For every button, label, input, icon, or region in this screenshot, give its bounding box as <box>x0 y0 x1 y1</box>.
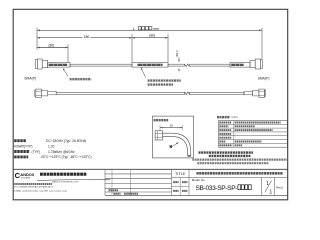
break mark upper cable <box>184 64 189 67</box>
SMA plug right (upper view) <box>250 60 255 67</box>
approval cells <box>171 186 189 188</box>
svg-text:-40°C~+125°C (Typ. -65°C~+125°: -40°C~+125°C (Typ. -65°C~+125°C) <box>40 155 92 159</box>
heat shrink band 1 with print <box>48 63 70 68</box>
svg-text:30: 30 <box>170 123 174 127</box>
svg-text:VSWR(TYP): VSWR(TYP) <box>14 144 33 148</box>
title text <box>197 172 284 175</box>
note4 <box>197 162 268 164</box>
svg-text:SB-033-SP-SP-: SB-033-SP-SP- <box>196 185 238 192</box>
note2 <box>209 155 251 157</box>
cable lower segment 2 <box>190 92 244 94</box>
SMA plug left (upper view) <box>35 60 37 69</box>
row7 value <box>235 144 243 146</box>
row4 label <box>219 133 231 135</box>
row3 label <box>219 129 231 131</box>
svg-text:(mm): (mm) <box>232 115 238 119</box>
heat shrink band 2 with print <box>132 63 168 68</box>
svg-text:TITLE: TITLE <box>175 172 186 176</box>
svg-text:DC~18GHz (Typ. 26.5GHz): DC~18GHz (Typ. 26.5GHz) <box>46 139 86 143</box>
callout1 text <box>70 78 92 80</box>
bend cable curve <box>163 133 191 156</box>
svg-text:Rev1: Rev1 <box>276 185 283 189</box>
appr4 <box>182 190 187 192</box>
svg-text:TEL (029)856-0909 FAX (029)8: TEL (029)856-0909 FAX (029)856-0907 <box>14 186 53 189</box>
row2 label <box>219 125 228 127</box>
svg-text:Model No.: Model No. <box>192 178 206 182</box>
row2 value <box>235 125 255 127</box>
heat shrink band 3 with print <box>230 63 250 68</box>
svg-text:1.78dB/m @6GHz: 1.78dB/m @6GHz <box>48 150 75 154</box>
svg-text:SMA(P): SMA(P) <box>258 76 270 80</box>
svg-text:1: 1 <box>269 190 272 196</box>
rev hdr2 <box>114 193 121 195</box>
SMA plug right (lower view) <box>244 91 253 94</box>
rev hdr1 <box>109 189 119 191</box>
appr1 <box>173 181 178 183</box>
row7 label <box>219 144 232 146</box>
cable structure header <box>217 116 230 118</box>
rev hdr3 <box>124 193 138 195</box>
callout2 line1 <box>148 79 181 81</box>
row1 label <box>219 122 231 124</box>
appr3 <box>173 190 178 192</box>
note1 <box>199 151 254 153</box>
row6 label <box>219 141 226 143</box>
row3 value <box>235 129 273 131</box>
sheet cell 1/1 <box>260 178 262 196</box>
svg-text:Ø3.6: Ø3.6 <box>175 50 179 57</box>
svg-text:SYSTEMS: SYSTEMS <box>21 178 31 180</box>
parts table <box>219 121 288 148</box>
cable segment upper 3 <box>189 64 230 66</box>
extension line x37 <box>36 28 38 50</box>
dimension (30) left band <box>37 47 68 49</box>
extension line x168 <box>167 34 169 62</box>
svg-text:(30): (30) <box>149 34 155 38</box>
extension line x68 <box>67 44 69 62</box>
svg-text:mm: mm <box>153 27 159 31</box>
revision table <box>104 169 106 195</box>
dimension L overall <box>37 29 262 31</box>
svg-text:1.20: 1.20 <box>48 144 55 148</box>
svg-text:SMA(P): SMA(P) <box>24 76 36 80</box>
address1 <box>14 183 52 185</box>
bend box title <box>154 119 169 121</box>
svg-text:(30): (30) <box>48 43 54 47</box>
row1 value <box>235 122 281 124</box>
row6 value <box>235 141 262 143</box>
bend radius leader arrow <box>171 143 178 148</box>
svg-text:180: 180 <box>84 35 90 39</box>
company name <box>40 173 87 176</box>
callout heat shrink tube left <box>63 68 68 76</box>
extension line x262 <box>261 28 263 60</box>
drawing border frame <box>13 9 288 200</box>
appr2 <box>182 181 187 183</box>
svg-text:CANDOX SYSTEMS INC-1768: CANDOX SYSTEMS INC-1768 <box>52 181 78 184</box>
title block top line <box>13 168 288 170</box>
cable diameter dim <box>178 57 180 62</box>
note3 <box>192 159 286 161</box>
bend cable end cap <box>188 155 191 156</box>
callout2 line2 <box>148 83 173 85</box>
bend dim 30 <box>160 127 183 129</box>
cable segment upper 1 <box>70 64 132 66</box>
dim label L boxes mm <box>146 26 149 29</box>
label loss <box>14 150 30 153</box>
label 180 <box>82 35 90 38</box>
svg-text:ANDOX: ANDOX <box>20 172 34 177</box>
label freq <box>14 139 26 142</box>
svg-text:(TYP): (TYP) <box>32 150 40 154</box>
cable segment upper 2 <box>168 64 184 66</box>
callout print / heat shrink tube mid <box>141 68 146 78</box>
logo underline swoosh <box>37 179 110 182</box>
svg-text:1: 1 <box>266 181 269 187</box>
extension line x132 <box>131 34 133 62</box>
bend radius box <box>152 116 193 158</box>
break mark lower cable <box>185 92 190 95</box>
svg-text:E-MAIL candox@candox.co.jp U: E-MAIL candox@candox.co.jp URL www.cando… <box>14 189 67 192</box>
row5 label <box>219 137 231 139</box>
chain dimension 180/(30) <box>37 37 168 39</box>
TITLE cell <box>170 169 172 195</box>
SMA plug left (lower view) <box>35 90 36 96</box>
title block bottom line <box>105 194 288 196</box>
cable lower segment 1 <box>56 92 184 94</box>
label temp <box>14 155 28 158</box>
bend connector <box>155 131 162 140</box>
